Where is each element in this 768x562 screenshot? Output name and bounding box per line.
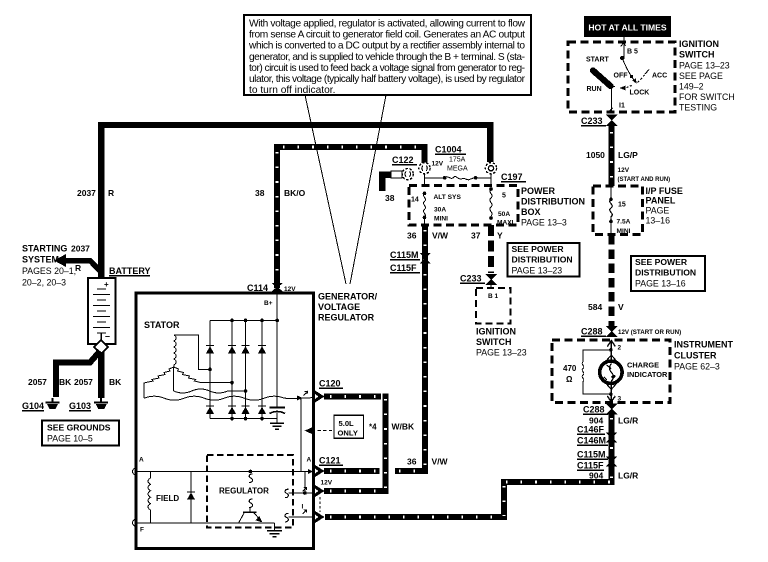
svg-text:ALT SYS: ALT SYS (434, 194, 462, 201)
svg-text:PAGE 13–16: PAGE 13–16 (635, 279, 686, 289)
svg-text:SWITCH: SWITCH (679, 50, 715, 60)
svg-text:PAGE: PAGE (646, 206, 670, 216)
svg-text:B 1: B 1 (488, 293, 499, 300)
svg-text:C115M: C115M (390, 250, 419, 260)
svg-text:I1: I1 (619, 103, 625, 110)
svg-text:MINI: MINI (434, 216, 448, 223)
svg-text:C114: C114 (247, 283, 268, 293)
svg-text:C115F: C115F (577, 461, 604, 471)
svg-text:tor) circuit is used to feed b: tor) circuit is used to feed back a volt… (249, 63, 525, 74)
svg-text:C288: C288 (583, 405, 605, 415)
svg-text:to turn off indicator.: to turn off indicator. (249, 85, 335, 96)
svg-text:MEGA: MEGA (447, 166, 468, 173)
svg-text:A: A (307, 457, 312, 464)
svg-text:V: V (618, 302, 624, 312)
svg-text:B 5: B 5 (627, 49, 638, 56)
svg-text:LG/P: LG/P (618, 150, 638, 160)
svg-text:LG/R: LG/R (618, 416, 638, 426)
svg-text:C233: C233 (581, 116, 603, 126)
svg-text:W/BK: W/BK (392, 422, 416, 432)
svg-text:12V: 12V (618, 167, 630, 174)
svg-text:V/W: V/W (432, 231, 449, 241)
svg-text:I/P FUSE: I/P FUSE (646, 186, 683, 196)
svg-text:ulator, this voltage (typicall: ulator, this voltage (typically half bat… (249, 74, 526, 85)
svg-text:I: I (302, 504, 304, 511)
svg-text:PAGE 10–5: PAGE 10–5 (47, 434, 93, 444)
svg-text:F: F (140, 527, 144, 534)
svg-text:MAXI: MAXI (497, 220, 514, 227)
svg-text:With voltage applied, regulato: With voltage applied, regulator is activ… (249, 19, 526, 30)
svg-text:2: 2 (618, 345, 622, 352)
svg-text:C1004: C1004 (435, 145, 462, 155)
svg-text:DISTRIBUTION: DISTRIBUTION (512, 255, 573, 265)
svg-text:from sense A circuit to genera: from sense A circuit to generator field … (249, 30, 525, 41)
svg-text:SWITCH: SWITCH (476, 337, 512, 347)
svg-text:OFF: OFF (614, 73, 629, 80)
svg-text:12V: 12V (321, 480, 333, 487)
svg-text:BK: BK (59, 377, 72, 387)
svg-text:7.5A: 7.5A (617, 219, 631, 226)
svg-text:12V (START OR RUN): 12V (START OR RUN) (618, 329, 681, 336)
svg-text:RUN: RUN (587, 86, 602, 93)
svg-text:BATTERY: BATTERY (109, 266, 151, 276)
svg-text:13–16: 13–16 (646, 216, 671, 226)
svg-text:V/W: V/W (432, 457, 449, 467)
svg-text:INDICATOR: INDICATOR (627, 370, 668, 379)
svg-text:LOCK: LOCK (630, 90, 650, 97)
svg-text:SYSTEM: SYSTEM (22, 255, 59, 265)
svg-text:PAGE 13–23: PAGE 13–23 (476, 348, 527, 358)
svg-text:36: 36 (407, 457, 417, 467)
svg-text:584: 584 (588, 302, 602, 312)
svg-text:38: 38 (385, 193, 395, 203)
svg-text:REGULATOR: REGULATOR (219, 487, 269, 496)
svg-text:50A: 50A (498, 211, 510, 218)
svg-text:C197: C197 (501, 172, 523, 182)
svg-text:C122: C122 (392, 155, 414, 165)
svg-text:12V: 12V (432, 161, 444, 168)
svg-text:2057: 2057 (28, 377, 47, 387)
svg-text:1050: 1050 (586, 150, 605, 160)
svg-text:37: 37 (471, 231, 481, 241)
svg-text:HOT AT ALL TIMES: HOT AT ALL TIMES (588, 23, 667, 33)
svg-text:C288: C288 (581, 327, 603, 337)
svg-text:5: 5 (502, 193, 506, 200)
svg-text:GENERATOR/: GENERATOR/ (318, 292, 378, 302)
svg-text:20–2, 20–3: 20–2, 20–3 (22, 278, 66, 288)
svg-text:REGULATOR: REGULATOR (318, 313, 375, 323)
svg-text:PAGE 62–3: PAGE 62–3 (674, 362, 720, 372)
svg-text:175A: 175A (449, 157, 466, 164)
svg-text:POWER: POWER (521, 186, 556, 196)
svg-text:SEE POWER: SEE POWER (512, 244, 565, 254)
svg-text:SEE POWER: SEE POWER (635, 257, 688, 267)
svg-text:(START AND RUN): (START AND RUN) (618, 177, 671, 183)
svg-text:30A: 30A (434, 207, 446, 214)
svg-text:2037: 2037 (71, 244, 90, 254)
svg-text:BK/O: BK/O (284, 188, 306, 198)
svg-text:SEE PAGE: SEE PAGE (679, 71, 723, 81)
svg-text:BK: BK (109, 377, 122, 387)
svg-text:*4: *4 (369, 423, 377, 432)
svg-text:LG/R: LG/R (618, 471, 638, 481)
svg-text:ACC: ACC (652, 73, 667, 80)
svg-text:A: A (139, 457, 144, 464)
svg-text:PAGE 13–3: PAGE 13–3 (521, 218, 567, 228)
svg-text:C115F: C115F (390, 263, 417, 273)
svg-text:G103: G103 (69, 401, 91, 411)
svg-text:DISTRIBUTION: DISTRIBUTION (635, 268, 696, 278)
svg-text:PAGES 20–1,: PAGES 20–1, (22, 266, 76, 276)
svg-text:C146M: C146M (577, 436, 606, 446)
svg-text:STARTING: STARTING (22, 244, 67, 254)
svg-text:470: 470 (563, 364, 577, 373)
svg-text:C121: C121 (319, 456, 341, 466)
svg-text:BOX: BOX (521, 207, 541, 217)
svg-text:+: + (104, 280, 109, 289)
svg-text:38: 38 (255, 188, 265, 198)
svg-text:CLUSTER: CLUSTER (674, 351, 717, 361)
svg-text:generator, and is supplied to: generator, and is supplied to vehicle th… (249, 52, 525, 63)
svg-text:C146F: C146F (577, 425, 605, 435)
svg-text:IGNITION: IGNITION (476, 327, 516, 337)
svg-text:STATOR: STATOR (144, 320, 180, 330)
svg-text:5.0L: 5.0L (339, 419, 355, 428)
svg-text:36: 36 (407, 231, 417, 241)
svg-text:PANEL: PANEL (646, 196, 676, 206)
svg-text:VOLTAGE: VOLTAGE (318, 302, 360, 312)
svg-text:which is converted to a DC out: which is converted to a DC output by a r… (248, 41, 525, 52)
svg-text:FOR SWITCH: FOR SWITCH (679, 92, 735, 102)
svg-text:B+: B+ (264, 300, 273, 307)
svg-text:FIELD: FIELD (156, 494, 179, 503)
svg-text:PAGE 13–23: PAGE 13–23 (679, 61, 730, 71)
svg-text:15: 15 (618, 202, 626, 209)
svg-text:C115M: C115M (577, 450, 606, 460)
svg-text:3: 3 (618, 396, 622, 403)
svg-text:Y: Y (497, 231, 503, 241)
svg-text:149–2: 149–2 (679, 82, 704, 92)
svg-text:START: START (586, 57, 610, 64)
svg-text:R: R (108, 188, 114, 198)
svg-text:TESTING: TESTING (679, 103, 717, 113)
svg-text:2037: 2037 (77, 188, 96, 198)
svg-text:G104: G104 (22, 401, 44, 411)
svg-text:C233: C233 (460, 274, 482, 284)
svg-text:C120: C120 (319, 379, 341, 389)
svg-text:ONLY: ONLY (338, 429, 358, 438)
svg-text:MINI: MINI (617, 228, 631, 235)
svg-text:Ω: Ω (566, 375, 573, 384)
svg-text:IGNITION: IGNITION (679, 39, 719, 49)
svg-text:INSTRUMENT: INSTRUMENT (674, 340, 733, 350)
svg-text:SEE GROUNDS: SEE GROUNDS (47, 423, 111, 433)
svg-text:CHARGE: CHARGE (627, 361, 659, 370)
svg-text:DISTRIBUTION: DISTRIBUTION (521, 197, 585, 207)
svg-text:14: 14 (411, 197, 419, 204)
svg-text:PAGE 13–23: PAGE 13–23 (512, 266, 563, 276)
svg-text:2057: 2057 (74, 377, 93, 387)
